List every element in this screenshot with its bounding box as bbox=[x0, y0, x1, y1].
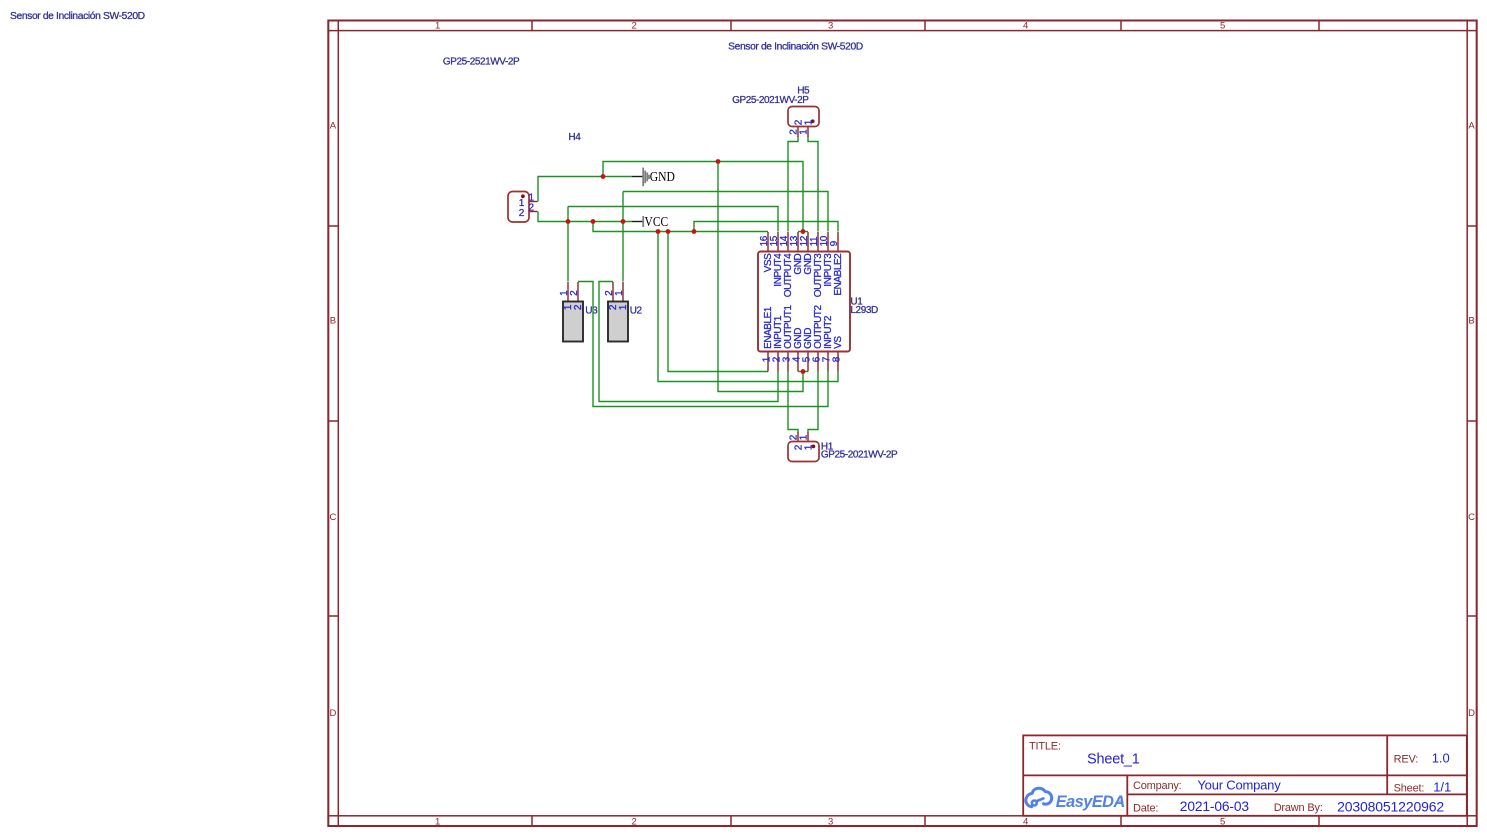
svg-text:D: D bbox=[329, 708, 336, 719]
svg-text:VS: VS bbox=[833, 336, 844, 349]
svg-text:Sensor de Inclinación SW-520D: Sensor de Inclinación SW-520D bbox=[10, 11, 145, 22]
svg-text:Your Company: Your Company bbox=[1197, 778, 1281, 793]
svg-text:5: 5 bbox=[1220, 816, 1225, 827]
svg-text:Sensor de Inclinación SW-520D: Sensor de Inclinación SW-520D bbox=[728, 41, 863, 52]
svg-text:1: 1 bbox=[618, 304, 629, 310]
svg-text:Drawn By:: Drawn By: bbox=[1274, 802, 1323, 814]
svg-text:U2: U2 bbox=[630, 306, 643, 317]
svg-text:GP25-2521WV-2P: GP25-2521WV-2P bbox=[443, 56, 520, 67]
svg-text:4: 4 bbox=[1023, 21, 1028, 32]
svg-text:2: 2 bbox=[573, 304, 584, 310]
svg-text:2: 2 bbox=[569, 290, 580, 296]
svg-text:2: 2 bbox=[632, 21, 637, 32]
svg-text:2: 2 bbox=[632, 816, 637, 827]
svg-text:B: B bbox=[1468, 315, 1474, 326]
svg-text:GP25-2021WV-2P: GP25-2021WV-2P bbox=[821, 449, 898, 460]
svg-text:B: B bbox=[330, 315, 336, 326]
svg-text:1/1: 1/1 bbox=[1433, 780, 1451, 795]
svg-text:1.0: 1.0 bbox=[1432, 751, 1450, 766]
svg-text:Company:: Company: bbox=[1133, 780, 1182, 792]
svg-text:GND: GND bbox=[650, 169, 675, 184]
svg-text:4: 4 bbox=[1023, 816, 1028, 827]
svg-text:TITLE:: TITLE: bbox=[1029, 740, 1061, 752]
svg-text:1: 1 bbox=[804, 119, 815, 125]
svg-text:C: C bbox=[1468, 512, 1475, 523]
svg-text:VCC: VCC bbox=[645, 214, 669, 229]
svg-text:Sheet:: Sheet: bbox=[1394, 783, 1425, 795]
svg-text:1: 1 bbox=[435, 816, 440, 827]
svg-text:5: 5 bbox=[1220, 21, 1225, 32]
svg-text:A: A bbox=[330, 120, 337, 131]
svg-text:C: C bbox=[329, 512, 336, 523]
svg-text:A: A bbox=[1468, 120, 1475, 131]
svg-text:Date:: Date: bbox=[1133, 803, 1158, 815]
svg-text:ENABLE2: ENABLE2 bbox=[833, 253, 844, 296]
svg-text:EasyEDA: EasyEDA bbox=[1056, 793, 1125, 811]
svg-text:2021-06-03: 2021-06-03 bbox=[1180, 799, 1250, 814]
svg-text:GP25-2021WV-2P: GP25-2021WV-2P bbox=[732, 95, 809, 106]
svg-text:2: 2 bbox=[519, 208, 525, 219]
svg-text:3: 3 bbox=[828, 21, 833, 32]
svg-text:2: 2 bbox=[528, 203, 534, 214]
svg-text:1: 1 bbox=[799, 434, 810, 440]
svg-text:L293D: L293D bbox=[850, 305, 878, 316]
svg-text:9: 9 bbox=[829, 240, 840, 246]
svg-text:1: 1 bbox=[614, 290, 625, 296]
svg-text:1: 1 bbox=[799, 129, 810, 135]
svg-text:1: 1 bbox=[804, 444, 815, 450]
svg-text:D: D bbox=[1468, 708, 1475, 719]
svg-text:Sheet_1: Sheet_1 bbox=[1087, 751, 1140, 767]
svg-text:1: 1 bbox=[435, 21, 440, 32]
svg-text:U3: U3 bbox=[585, 306, 598, 317]
svg-text:H4: H4 bbox=[568, 132, 581, 143]
svg-text:REV:: REV: bbox=[1394, 754, 1419, 766]
svg-text:20308051220962: 20308051220962 bbox=[1337, 798, 1444, 814]
svg-text:3: 3 bbox=[828, 816, 833, 827]
svg-text:8: 8 bbox=[831, 356, 842, 362]
